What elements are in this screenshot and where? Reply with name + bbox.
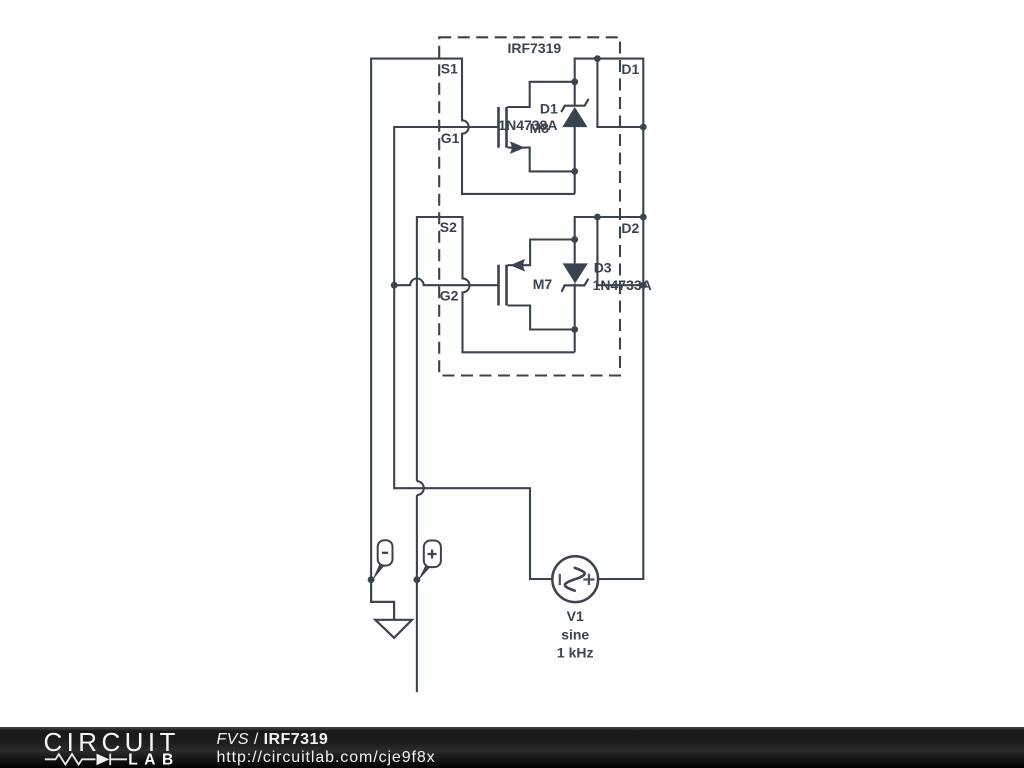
svg-text:D1: D1 [621,61,639,77]
svg-text:D1: D1 [540,100,558,116]
svg-text:1 kHz: 1 kHz [557,645,594,661]
svg-text:S1: S1 [441,61,458,77]
svg-text:LAB: LAB [128,752,180,768]
svg-text:S2: S2 [440,219,457,235]
svg-text:G2: G2 [440,287,459,303]
svg-text:1N4733A: 1N4733A [593,277,652,293]
svg-text:M8: M8 [530,120,550,136]
svg-text:V1: V1 [567,608,584,624]
svg-text:D3: D3 [594,260,612,276]
svg-text:sine: sine [561,627,589,643]
svg-text:D2: D2 [621,220,639,236]
svg-text:IRF7319: IRF7319 [508,40,562,56]
svg-text:M7: M7 [533,276,553,292]
svg-text:G1: G1 [441,130,460,146]
